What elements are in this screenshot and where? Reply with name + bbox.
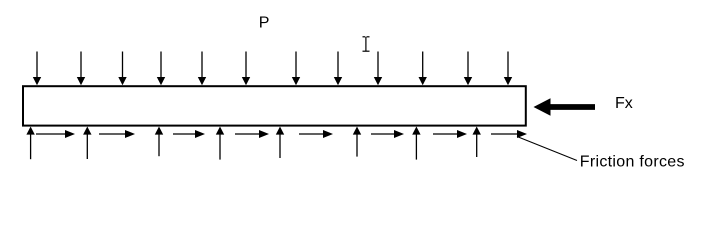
svg-text:Fx: Fx [615,95,633,112]
svg-text:P: P [259,15,270,32]
svg-text:Friction forces: Friction forces [580,153,685,170]
